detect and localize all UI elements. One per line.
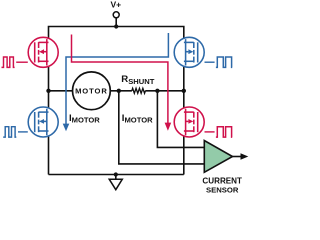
pwm source P4 (bottom-right, red) [205, 131, 215, 133]
svg-text:IMOTOR: IMOTOR [69, 113, 100, 125]
transistor Q3 (bottom-left, blue) [28, 107, 58, 137]
op-amp U1 current sensor [202, 141, 248, 195]
transistor Q1 (top-left, red) [28, 37, 58, 67]
svg-text:MOTOR: MOTOR [75, 87, 108, 96]
svg-text:V+: V+ [110, 0, 121, 10]
wire: sense line shunt left terminal to sensor lower input [119, 91, 205, 164]
svg-text:SENSOR: SENSOR [206, 185, 239, 194]
wire: red current path indicator [72, 35, 168, 124]
node V+ terminal [110, 0, 121, 29]
wire: right rail Q2-source to shunt node [183, 66, 185, 109]
node: right rail / shunt junction [182, 89, 186, 93]
wire: right rail Q4-source to ground rail [183, 136, 185, 175]
resistor RSHUNT [121, 74, 154, 93]
node: blue current arrowhead [63, 124, 70, 132]
wire: motor left lead [49, 90, 73, 92]
node: left rail / motor junction [46, 89, 50, 93]
wire: bottom ground rail [49, 174, 184, 176]
wire: left rail Q3-source to ground rail [48, 136, 50, 175]
pwm source P2 (top-right, blue) [205, 61, 215, 63]
motor M1 [73, 72, 111, 110]
wire: blue current path indicator [66, 33, 168, 124]
wire: top rail V+ bus with corners into both legs [49, 27, 184, 39]
svg-text:IMOTOR: IMOTOR [122, 113, 153, 125]
svg-text:CURRENT: CURRENT [202, 177, 242, 186]
transistor Q4 (bottom-right, red) [174, 107, 204, 137]
wire: motor right lead to shunt left node [110, 90, 132, 92]
ground [109, 172, 122, 189]
pwm source P1 (top-left, red) [2, 57, 15, 67]
wire: left rail Q1-source to motor node [48, 66, 50, 109]
wire: sense line shunt right terminal to sensor upper input [157, 91, 204, 148]
node: shunt left terminal [117, 89, 121, 93]
node: red current arrowhead [165, 123, 172, 131]
transistor Q2 (top-right, blue) [174, 37, 204, 67]
node: shunt right terminal [155, 89, 159, 93]
pwm source P3 (bottom-left, blue) [3, 127, 16, 137]
wire: shunt right lead to right rail [145, 90, 184, 92]
